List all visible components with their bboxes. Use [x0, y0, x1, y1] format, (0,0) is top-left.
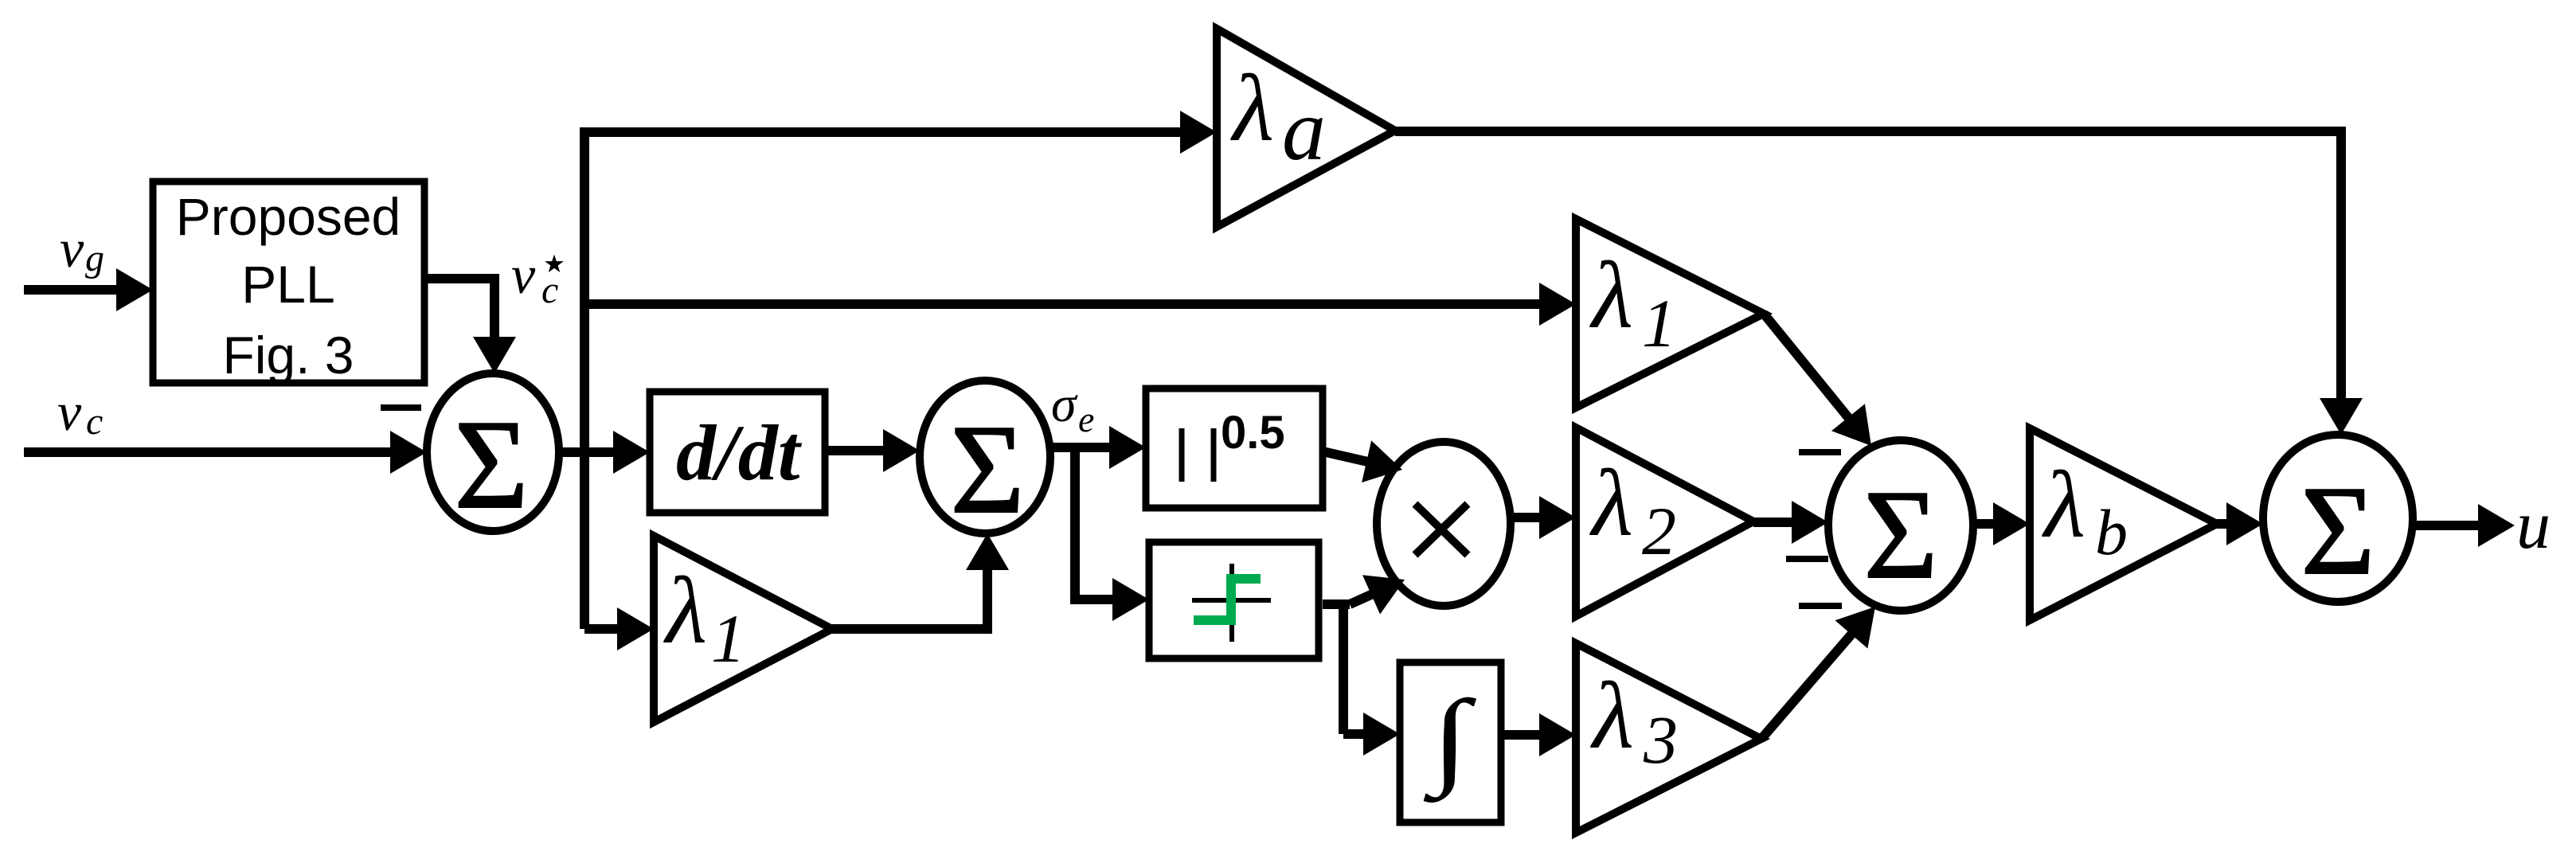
- svg-text:0.5: 0.5: [1221, 407, 1285, 459]
- svg-text:d/dt: d/dt: [676, 408, 803, 497]
- svg-text:a: a: [1282, 81, 1326, 178]
- svg-text:2: 2: [1642, 493, 1676, 569]
- svg-text:e: e: [1078, 399, 1094, 439]
- svg-text:σ: σ: [1051, 376, 1078, 432]
- svg-text:Fig. 3: Fig. 3: [222, 326, 354, 385]
- svg-text:v: v: [60, 218, 84, 279]
- svg-text:λ: λ: [663, 557, 707, 663]
- svg-text:c: c: [541, 269, 558, 311]
- svg-text:∫: ∫: [1423, 678, 1476, 803]
- svg-text:Σ: Σ: [2300, 459, 2375, 601]
- svg-text:λ: λ: [1589, 450, 1633, 556]
- svg-text:λ: λ: [1589, 242, 1633, 348]
- svg-text:λ: λ: [1230, 55, 1274, 161]
- svg-text:λ: λ: [1590, 662, 1634, 768]
- svg-text:g: g: [85, 237, 104, 279]
- svg-text:v: v: [511, 244, 536, 305]
- svg-text:Σ: Σ: [1863, 463, 1937, 605]
- svg-text:v: v: [57, 381, 82, 442]
- svg-text:u: u: [2516, 486, 2551, 563]
- svg-text:1: 1: [1642, 285, 1676, 361]
- svg-text:Σ: Σ: [454, 393, 528, 535]
- svg-text:Σ: Σ: [950, 398, 1024, 540]
- svg-text:1: 1: [711, 600, 745, 677]
- svg-text:Proposed: Proposed: [176, 187, 401, 246]
- svg-text:λ: λ: [2042, 451, 2085, 557]
- svg-text:3: 3: [1643, 701, 1678, 778]
- svg-text:b: b: [2095, 496, 2128, 568]
- svg-text:PLL: PLL: [241, 255, 334, 314]
- svg-text:c: c: [86, 400, 103, 443]
